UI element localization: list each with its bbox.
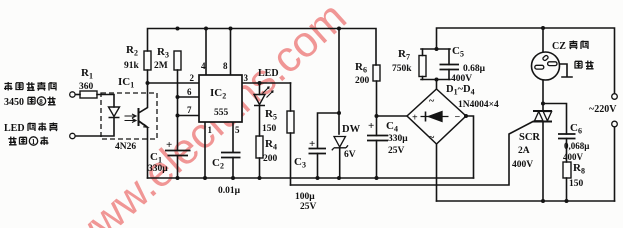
- resistor R6: [373, 65, 380, 81]
- wire: pin 7 of IC2: [178, 115, 200, 117]
- svg-text:0,068μ: 0,068μ: [564, 141, 589, 151]
- value label R6 200: [355, 61, 370, 86]
- svg-text:~220V: ~220V: [589, 104, 617, 115]
- svg-text:+: +: [368, 120, 374, 132]
- svg-text:330μ: 330μ: [388, 134, 408, 144]
- svg-text:150: 150: [569, 179, 584, 189]
- svg-text:400V: 400V: [451, 74, 472, 84]
- value label R2 91k: [124, 44, 140, 71]
- wire: pin 4 to VCC rail: [205, 29, 207, 76]
- wire: C6 to R8: [566, 139, 568, 163]
- resistor R5: [287, 111, 294, 133]
- svg-text:3450: 3450: [4, 97, 24, 108]
- wire: R6 bottom to bridge + node: [377, 81, 408, 116]
- terminal: ~220V upper: [612, 94, 618, 100]
- transistor Q: SCR triac symbol: [533, 111, 552, 122]
- wire: bridge minus output to ground rail: [466, 116, 474, 178]
- resistor R3: [174, 51, 181, 70]
- svg-text:200: 200: [263, 154, 278, 164]
- node: VCC top rail (left): [148, 29, 377, 66]
- node label: socket (cha zuo): [575, 61, 594, 70]
- diode: bridge center diode symbol: [421, 116, 449, 118]
- value label R1 360: [79, 67, 94, 92]
- wire: R7/C5 top node: [421, 48, 450, 50]
- value label IC1: [118, 76, 134, 90]
- value label R5 150: [262, 108, 277, 134]
- capacitor C2 plates: [221, 153, 241, 158]
- wire: snubber branch top: [543, 104, 567, 135]
- wire: input bottom terminal to opto LED cathode: [75, 118, 114, 136]
- capacitor C3 plates: [309, 149, 327, 154]
- svg-text:LED: LED: [258, 68, 279, 79]
- diode: opto LED triangle: [109, 107, 120, 118]
- value label 4N26: [115, 142, 136, 152]
- wire: input top terminal to R1: [75, 94, 80, 96]
- resistor R4: [256, 136, 263, 158]
- wire: pin 8 to VCC rail: [230, 29, 232, 76]
- svg-text:330μ: 330μ: [148, 164, 168, 174]
- svg-text:6: 6: [187, 87, 192, 97]
- value label SCR 2A 400V: [512, 132, 540, 170]
- value label LED: [258, 68, 279, 79]
- wire: pin 5 to C2: [232, 122, 234, 152]
- node label: CZ load: [552, 41, 566, 52]
- svg-text:150: 150: [262, 124, 277, 134]
- junction LED branch on pin3 wire: [258, 81, 262, 85]
- wire: dropper node to bridge AC top: [436, 80, 438, 90]
- svg-text:1N4004×4: 1N4004×4: [458, 100, 499, 110]
- LED indicator symbol: [254, 87, 273, 106]
- wire: C5 leads: [448, 49, 450, 80]
- value label C3 100u 25V: [294, 138, 317, 212]
- svg-text:0.01μ: 0.01μ: [218, 186, 241, 196]
- wire: pin 3 output: [242, 82, 291, 84]
- svg-text:0.68μ: 0.68μ: [463, 64, 486, 74]
- junction R3 top on VCC rail: [176, 27, 180, 31]
- svg-text:8: 8: [39, 98, 43, 106]
- svg-text:100μ: 100μ: [295, 192, 315, 202]
- value label C2 0.01u: [212, 157, 241, 196]
- wire: R7/C5 bottom node: [421, 79, 450, 81]
- value label R7 750k: [392, 48, 412, 74]
- node label: 3450 pin 8: [4, 97, 24, 108]
- transistor: opto phototransistor: [138, 108, 140, 126]
- svg-text:25V: 25V: [388, 146, 405, 156]
- svg-text:4N26: 4N26: [115, 142, 136, 152]
- capacitor C5 plates: [440, 65, 460, 70]
- junction DW branch on VCC rail: [337, 27, 341, 31]
- resistor R2: [144, 51, 151, 70]
- junction DW on ground rail: [337, 176, 341, 180]
- wire: mains rail to socket top: [542, 28, 544, 53]
- junction pin6 node: [176, 95, 180, 99]
- wire: pin3 node down to R5: [290, 83, 292, 111]
- svg-text:91k: 91k: [124, 61, 140, 71]
- svg-text:LED: LED: [4, 123, 25, 134]
- socket right slot: [548, 62, 557, 66]
- wire: C3 bottom to ground: [317, 154, 319, 179]
- diode DW zener 6V: [332, 137, 348, 151]
- capacitor C6 plates: [558, 134, 576, 139]
- wire: R2 bottom to pin2 node to opto collector: [139, 70, 148, 113]
- svg-text:25V: 25V: [300, 202, 317, 212]
- wire: R3 bottom through pins 6,7 to C1: [177, 70, 179, 150]
- wire: pin 2 of IC2: [148, 82, 200, 84]
- node: mains live top rail (right): [437, 28, 615, 94]
- node: bottom mains rail: [437, 200, 615, 202]
- wire: C2 bottom to ground: [232, 158, 234, 179]
- terminal: input from clock chip pin 8: [70, 92, 75, 97]
- resistor R1: [80, 91, 97, 98]
- wire: LED anode drop: [259, 83, 261, 95]
- capacitor C4 plates: [367, 136, 388, 141]
- CZ socket circle: [532, 52, 560, 80]
- junction C1 on ground rail: [176, 176, 180, 180]
- junction pin4 on VCC rail: [204, 27, 208, 31]
- wire: C4 top: [376, 116, 378, 136]
- svg-text:400V: 400V: [512, 160, 533, 170]
- svg-text:6V: 6V: [344, 150, 356, 160]
- wire: 220V terminal lower lead: [614, 127, 616, 201]
- wire: R8 bottom to bottom rail: [566, 178, 568, 201]
- socket top slot: [542, 55, 548, 61]
- junction pin2 node: [146, 81, 150, 85]
- svg-text:1: 1: [208, 125, 213, 135]
- junction socket branch on mains rail: [541, 26, 545, 30]
- node label: common cathode pin 1: [8, 137, 48, 147]
- junction R4 on ground rail: [258, 176, 262, 180]
- junction SCR anode / snubber node: [541, 102, 545, 106]
- svg-text:7: 7: [187, 105, 192, 115]
- value label C4 330u 25V: [368, 120, 408, 156]
- wire: R1 to opto LED anode: [97, 95, 114, 108]
- svg-text:8: 8: [223, 61, 228, 71]
- junction C3 jog on zener line: [337, 111, 341, 115]
- svg-text:+: +: [166, 139, 172, 151]
- terminal: ~220V lower: [612, 121, 618, 127]
- value label D1-D4: [446, 84, 499, 110]
- wire: bridge AC bottom down across ground to bottom rail: [436, 144, 438, 201]
- junction C4 / bridge plus node: [375, 114, 379, 118]
- wire: C4 bottom to ground: [376, 141, 378, 179]
- wire: SCR anode: [542, 104, 544, 111]
- value label R3 2M: [154, 46, 169, 71]
- svg-text:~: ~: [429, 133, 435, 144]
- svg-text:SCR: SCR: [519, 132, 540, 143]
- wire: R5 bottom to gate line: [290, 133, 292, 185]
- svg-text:CZ: CZ: [552, 41, 566, 52]
- value label C1 330u: [148, 139, 172, 174]
- wire: socket right slot tab: [556, 64, 572, 77]
- capacitor C1 plates: [165, 151, 191, 156]
- op-amp U: IC2 555 timer box: [199, 75, 242, 122]
- wire: DW cathode to ground: [339, 148, 341, 178]
- value label DW 6V: [342, 124, 361, 160]
- wire: C1 bottom to ground: [177, 156, 179, 179]
- svg-text:1: 1: [32, 138, 36, 146]
- svg-text:5: 5: [235, 125, 240, 135]
- svg-text:~: ~: [429, 96, 435, 107]
- junction dropper bottom node: [435, 78, 439, 82]
- node: ground rail: [148, 177, 474, 179]
- resistor R8: [563, 162, 571, 178]
- junction C3 on ground rail: [316, 176, 320, 180]
- junction pin1 on ground rail: [203, 176, 207, 180]
- svg-text:200: 200: [355, 76, 370, 86]
- node label: digital clock chip text (fake CJK strokes): [4, 82, 56, 91]
- wire: socket bottom to SCR node: [542, 79, 544, 104]
- wire: VCC rail to DW zener: [338, 29, 340, 135]
- socket left slot: [535, 65, 544, 69]
- resistor R7: [419, 56, 426, 77]
- wire: SCR gate line: [291, 122, 534, 186]
- svg-text:750k: 750k: [392, 64, 412, 74]
- value label C5 0.68u 400V: [451, 45, 486, 84]
- svg-text:2A: 2A: [518, 146, 530, 156]
- opto coupling arrows: [125, 114, 137, 123]
- svg-text:4: 4: [201, 61, 206, 71]
- junction dropper top node: [435, 47, 439, 51]
- svg-text:−: −: [455, 112, 461, 123]
- IC1 optocoupler 4N26 dashed box: [101, 93, 157, 139]
- svg-text:DW: DW: [342, 124, 361, 135]
- svg-text:3: 3: [244, 73, 249, 83]
- junction bridge minus vertex: [464, 114, 468, 118]
- svg-text:400V: 400V: [563, 152, 584, 162]
- svg-text:+: +: [309, 138, 315, 150]
- svg-text:360: 360: [79, 82, 94, 92]
- svg-text:2: 2: [190, 73, 195, 83]
- svg-text:D1~D4: D1~D4: [446, 84, 475, 97]
- svg-text:555: 555: [214, 108, 229, 118]
- wire: R7 leads: [422, 49, 424, 80]
- junction SCR cathode on bottom rail: [541, 199, 545, 203]
- wire: C3 to zener node jog: [318, 113, 340, 148]
- diode bridge D1-D4: [407, 89, 466, 144]
- junction C4 on ground rail: [375, 176, 379, 180]
- wire: SCR cathode to bottom rail: [542, 122, 544, 202]
- value label R8 150: [569, 162, 585, 189]
- value label R4 200: [263, 138, 278, 164]
- value label ~220V: [589, 104, 617, 115]
- wire: opto emitter down to ground rail: [139, 121, 148, 178]
- wire: pin 6 of IC2: [178, 96, 200, 98]
- junction C2 on ground rail: [231, 176, 235, 180]
- value label C6 0,068u 400V: [563, 122, 589, 162]
- wire: R4 bottom to ground: [259, 158, 261, 178]
- junction R8 on bottom rail: [565, 199, 569, 203]
- terminal: input from LED display common: [70, 133, 75, 138]
- wire: pin 1 to ground: [204, 122, 206, 178]
- value label IC2 555: [210, 87, 229, 118]
- node label: LED display text: [4, 123, 25, 134]
- junction pin7 node: [176, 114, 180, 118]
- wire: LED cathode to R4: [259, 106, 261, 137]
- svg-text:+: +: [412, 113, 418, 124]
- svg-text:2M: 2M: [154, 61, 168, 71]
- junction pin8 on VCC rail: [229, 27, 233, 31]
